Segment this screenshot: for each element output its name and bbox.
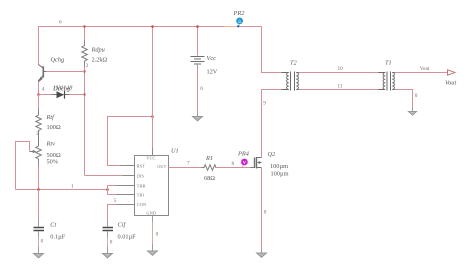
svg-text:10: 10 — [338, 66, 344, 72]
svg-text:0.1µF: 0.1µF — [50, 234, 65, 241]
wire diode net — [39, 94, 85, 96]
svg-text:TRI: TRI — [137, 192, 145, 197]
svg-text:6: 6 — [59, 20, 62, 26]
junction rail/battery — [196, 25, 199, 28]
label Ddchg overlapped — [52, 85, 73, 93]
junction rail x84 — [83, 25, 85, 27]
wire T2 primary bottom to drain — [262, 90, 287, 158]
wire highlight near PR2 — [224, 26, 237, 28]
svg-text:2.2kΩ: 2.2kΩ — [92, 57, 108, 64]
resistor Rtf — [36, 113, 42, 133]
ground (Ct) — [34, 254, 44, 258]
wire net 10 — [299, 72, 385, 74]
wire Q2 source to ground — [261, 168, 263, 250]
svg-text:PR4: PR4 — [237, 151, 249, 158]
svg-text:68Ω: 68Ω — [204, 175, 215, 182]
probe PR4 — [241, 159, 248, 167]
svg-text:100Ω: 100Ω — [47, 124, 61, 131]
Rtv wiper arrow — [33, 150, 37, 153]
svg-text:0: 0 — [41, 239, 44, 245]
wire rail corner down to T2 primary top — [262, 27, 287, 73]
wire Rdpu branch vertical — [85, 27, 135, 176]
op-amp U1 555 timer box — [135, 156, 169, 216]
svg-text:100µm: 100µm — [271, 171, 289, 178]
wire between Rtf and Rtv — [38, 132, 40, 145]
svg-text:GND: GND — [146, 210, 156, 215]
wire T1 secondary top to Vout — [395, 72, 448, 74]
svg-text:Q2: Q2 — [268, 151, 277, 158]
wire top rail net 6 — [39, 26, 262, 28]
capacitor Ct — [34, 190, 45, 254]
svg-text:T2: T2 — [290, 60, 298, 67]
ground (battery) — [193, 117, 203, 121]
svg-text:CON: CON — [137, 202, 146, 207]
wire left vertical to Qchg collector — [38, 26, 40, 65]
transistor Qchg — [39, 65, 53, 83]
diode Ddchg — [52, 94, 70, 96]
wire THR/TRI bracket — [108, 186, 135, 195]
Qchg emitter arrow — [39, 77, 43, 83]
svg-text:Cif: Cif — [118, 222, 127, 229]
transformer T2 — [282, 72, 304, 91]
wire R1 to gate — [216, 167, 255, 169]
junction VCC/RST — [151, 115, 154, 118]
transformer T1 — [379, 72, 400, 91]
svg-text:0: 0 — [264, 210, 267, 216]
svg-text:0.01µF: 0.01µF — [118, 234, 137, 241]
svg-text:Rdpu: Rdpu — [91, 47, 105, 54]
svg-text:Ct: Ct — [50, 222, 56, 229]
wire wiper loop — [16, 142, 30, 190]
svg-text:7: 7 — [187, 161, 190, 167]
svg-text:0: 0 — [156, 232, 159, 238]
ground (Cif) — [103, 254, 113, 258]
ground (T1) — [408, 112, 416, 116]
svg-text:DIS: DIS — [137, 173, 145, 178]
svg-text:Vout: Vout — [445, 80, 456, 87]
wire net 1 horizontal — [16, 189, 108, 191]
junction emitter/diode/Rtf — [37, 93, 40, 96]
svg-text:R1: R1 — [205, 155, 213, 162]
ground (Q2) — [257, 253, 267, 257]
svg-text:Vcc: Vcc — [207, 55, 217, 62]
wire pot bottom to net1 — [38, 160, 40, 166]
junction rail/VCC — [151, 25, 154, 28]
555 pin stubs gray — [117, 148, 180, 205]
svg-text:4: 4 — [42, 87, 45, 93]
wire base to node3 — [46, 71, 85, 73]
svg-text:0: 0 — [200, 86, 203, 92]
Q2 body arrow — [257, 161, 260, 164]
potentiometer Rtv — [30, 144, 42, 161]
svg-text:Ddchg: Ddchg — [52, 85, 70, 92]
wire 555 VCC vertical — [152, 27, 154, 156]
svg-text:12V: 12V — [207, 69, 218, 76]
svg-text:0: 0 — [415, 93, 418, 99]
resistor R1 — [202, 165, 219, 171]
svg-text:9: 9 — [263, 101, 266, 107]
ground (555) — [148, 251, 158, 255]
svg-text:8: 8 — [232, 161, 235, 167]
wire RST loop — [108, 117, 153, 166]
svg-text:T1: T1 — [385, 60, 392, 67]
svg-text:3: 3 — [86, 63, 89, 69]
wire net 11 — [299, 89, 385, 91]
svg-text:11: 11 — [338, 84, 343, 90]
wire Q2 source gray stub — [261, 249, 263, 253]
resistor Rdpu — [84, 40, 86, 67]
svg-text:1: 1 — [71, 184, 74, 190]
svg-text:50%: 50% — [47, 159, 59, 166]
wire T1 secondary bottom to ground — [395, 90, 413, 108]
wire Rtf top lead — [38, 95, 40, 109]
junction net1/THR — [106, 188, 109, 191]
svg-text:U1: U1 — [171, 148, 179, 155]
svg-text:OUT: OUT — [157, 164, 166, 169]
junction base node 3 — [83, 70, 85, 72]
Vout arrow — [448, 70, 456, 75]
battery Vcc — [191, 27, 205, 117]
wire OUT to R1 — [199, 167, 220, 169]
svg-text:PR2: PR2 — [233, 10, 246, 17]
capacitor Cif — [103, 228, 114, 254]
svg-text:100µm: 100µm — [270, 163, 288, 170]
svg-text:VCC: VCC — [146, 156, 155, 161]
svg-text:RST: RST — [137, 163, 145, 168]
svg-text:5: 5 — [114, 198, 117, 204]
transistor Q2 mosfet — [255, 157, 262, 169]
svg-text:Rtv: Rtv — [46, 141, 56, 148]
wire CON to Cif — [108, 205, 135, 221]
junction diode cathode — [83, 93, 85, 95]
wire 555 GND stub — [152, 216, 154, 223]
svg-text:Rtf: Rtf — [46, 114, 56, 121]
svg-text:0: 0 — [110, 240, 113, 246]
wire emitter down to diode node — [38, 82, 40, 95]
svg-text:THR: THR — [137, 183, 146, 188]
svg-text:Vout: Vout — [420, 66, 430, 72]
junction net1/Ct — [37, 188, 40, 191]
wire T1 gnd gray stub — [412, 107, 414, 112]
svg-text:Qchg: Qchg — [51, 57, 65, 64]
probe PR2 — [236, 18, 243, 28]
